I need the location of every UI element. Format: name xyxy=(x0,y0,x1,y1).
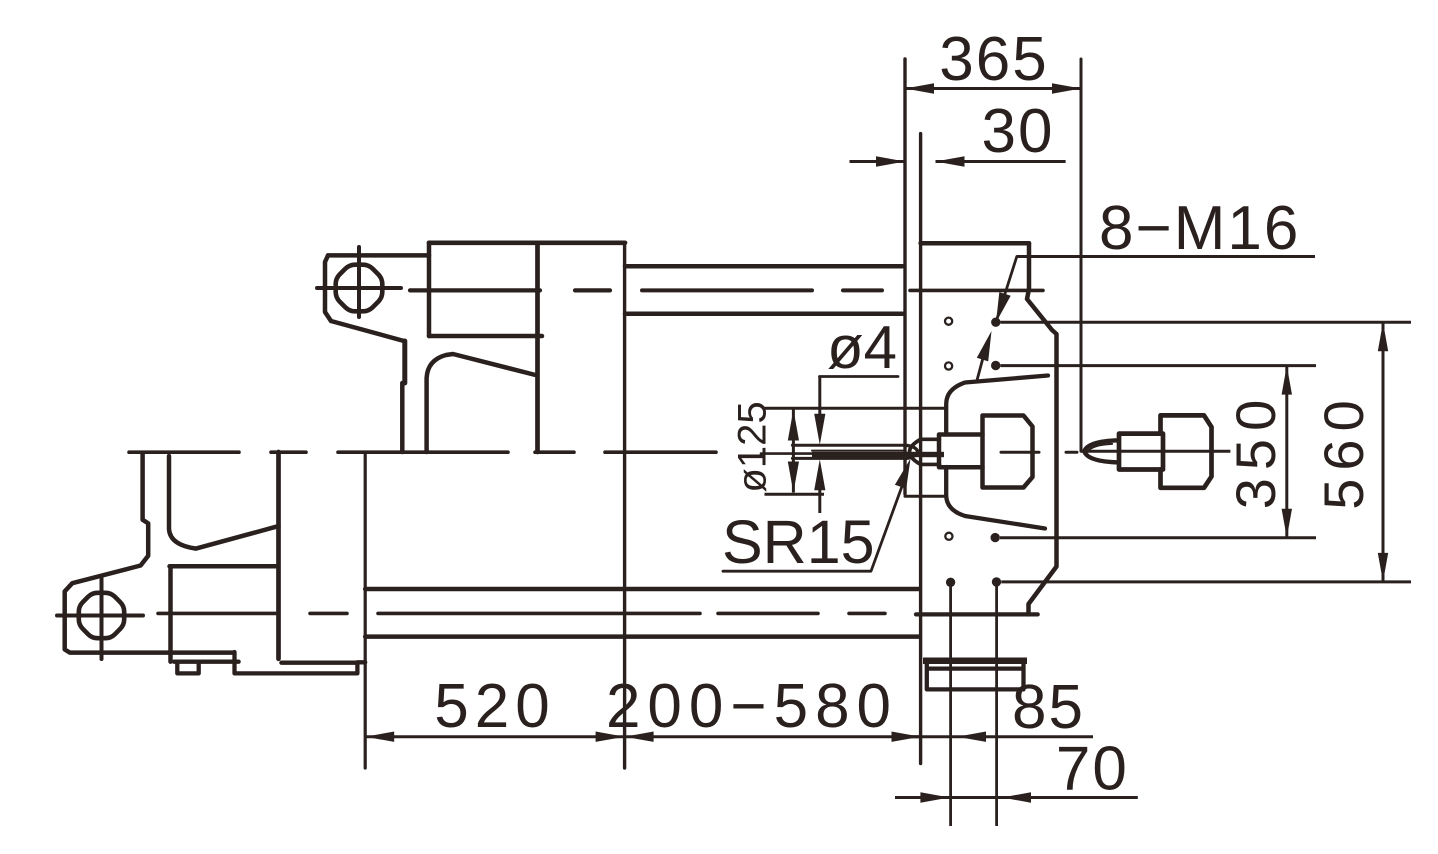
detail nozzle tip inner line xyxy=(1088,444,1112,452)
eye centerline vertical (upper) xyxy=(357,247,361,317)
base centerline (dash-dot) xyxy=(158,612,885,616)
sprue bushing pilot xyxy=(939,435,983,468)
barrel top line xyxy=(625,264,903,269)
lifting eye circle (upper) xyxy=(336,265,383,312)
svg-text:85: 85 xyxy=(1012,673,1085,742)
platen top edge xyxy=(921,241,1029,246)
eye centerline horizontal (lower) xyxy=(57,614,143,618)
mold bolt hole B3 (section dot) xyxy=(991,533,1000,542)
slide plate xyxy=(235,652,358,673)
mold bolt hole A4 (section dot) xyxy=(946,578,955,587)
nozzle bore upper line xyxy=(812,450,903,452)
svg-text:ø4: ø4 xyxy=(827,314,897,381)
mold bolt hole A1 xyxy=(945,318,952,325)
eye bracket top (upper) xyxy=(325,255,429,321)
barrel bottom line xyxy=(625,312,903,317)
bushing nose arc xyxy=(910,439,921,464)
svg-text:200−580: 200−580 xyxy=(606,672,898,741)
svg-text:350: 350 xyxy=(1224,392,1287,509)
dimension line 350 xyxy=(1282,366,1292,538)
extension line 365 right xyxy=(1080,59,1083,451)
support column right edge / extension line xyxy=(623,243,626,768)
detail nozzle body xyxy=(1119,434,1163,470)
svg-text:560: 560 xyxy=(1312,392,1375,509)
base lower edge xyxy=(365,634,919,639)
mold bolt hole A2 xyxy=(945,362,952,369)
svg-text:70: 70 xyxy=(1056,735,1129,804)
rear block xyxy=(170,566,278,661)
mold bolt hole B4 (section dot) xyxy=(992,577,1001,586)
dimension arrows ø125 xyxy=(788,410,799,493)
carriage left leg xyxy=(402,341,405,452)
extension line row2 xyxy=(1000,364,1316,367)
detail nozzle centerline xyxy=(1081,450,1230,453)
main axis dashes right xyxy=(1001,451,1077,454)
extension line row3 xyxy=(1000,536,1316,539)
svg-text:520: 520 xyxy=(434,672,555,741)
sprue bushing flange xyxy=(983,416,1033,488)
svg-text:365: 365 xyxy=(939,25,1048,94)
dimension arrows ø4 xyxy=(814,377,825,514)
mold bolt hole B1 (section dot) xyxy=(991,318,1000,327)
lifting eye circle (lower) xyxy=(79,593,124,638)
rear support curve xyxy=(169,456,279,549)
leader line 8-M16 xyxy=(996,257,1017,323)
detail nozzle tip xyxy=(1084,440,1119,462)
svg-text:8−M16: 8−M16 xyxy=(1099,194,1300,263)
support column left edge xyxy=(535,243,540,452)
nozzle lower profile xyxy=(792,457,906,460)
svg-text:30: 30 xyxy=(982,97,1055,166)
dimension line 70 xyxy=(895,792,1138,802)
extension line row4 xyxy=(1001,580,1411,583)
base top line / main axis (dash-dot at y452) xyxy=(129,450,716,454)
bushing nose bottom line xyxy=(921,463,940,467)
nozzle upper profile xyxy=(792,444,906,447)
detail nozzle adapter xyxy=(1161,415,1212,487)
leader second arrow xyxy=(977,331,992,380)
nozzle step line xyxy=(761,452,812,455)
dimension line 30 xyxy=(850,156,1066,166)
leader SR15 xyxy=(723,459,911,572)
dimension line 85 xyxy=(897,732,1093,742)
extension line row1 xyxy=(1001,321,1412,324)
bracket diagonal (upper) xyxy=(331,321,404,341)
dimension line 365 xyxy=(905,83,1081,93)
injection housing left edge xyxy=(427,243,432,336)
dimension line 520 / 200-580 xyxy=(365,732,920,742)
injection housing top edge xyxy=(429,240,625,245)
barrel centerline (dash-dot) xyxy=(410,288,1043,292)
platen mold face line / extension xyxy=(903,59,906,494)
rear bracket outline (lower) xyxy=(65,454,234,653)
platen right upper edge xyxy=(1027,243,1057,614)
carriage bottom step xyxy=(174,660,239,664)
recess outline bottom xyxy=(946,467,1045,529)
mold bolt hole A3 xyxy=(945,533,952,540)
platen boss top line xyxy=(765,407,947,410)
rear column xyxy=(276,452,281,659)
platen foot block xyxy=(927,664,1024,689)
platen boss bottom line xyxy=(905,495,946,498)
eye centerline vertical (lower) xyxy=(100,577,104,659)
carriage right leg xyxy=(427,354,536,452)
dimension line 560 xyxy=(1378,322,1388,582)
injection housing bottom edge (left block) xyxy=(429,334,542,339)
platen front face line / extension xyxy=(919,134,922,764)
plate link line xyxy=(357,660,365,664)
svg-text:SR15: SR15 xyxy=(722,508,875,576)
recess outline top xyxy=(946,376,1048,435)
base left edge / extension line 520 xyxy=(364,452,367,768)
extension line hole B4 down xyxy=(995,582,998,826)
small foot pad xyxy=(177,662,198,674)
nozzle tip xyxy=(906,445,918,458)
eye centerline horizontal (upper) xyxy=(317,286,401,290)
nozzle bore band xyxy=(812,452,944,457)
svg-text:ø125: ø125 xyxy=(731,401,775,492)
leader underline 8-M16 xyxy=(1017,255,1315,258)
extension line ø125 bottom xyxy=(765,493,825,496)
platen pedestal top line xyxy=(916,612,1038,616)
base upper edge xyxy=(365,587,919,592)
extension line hole A4 down xyxy=(949,582,952,826)
mold bolt hole B2 (section dot) xyxy=(991,361,1000,370)
bushing nose top line xyxy=(921,437,940,441)
dimension shelf ø4 xyxy=(820,375,899,378)
platen foot plate (thick) xyxy=(923,658,1027,665)
